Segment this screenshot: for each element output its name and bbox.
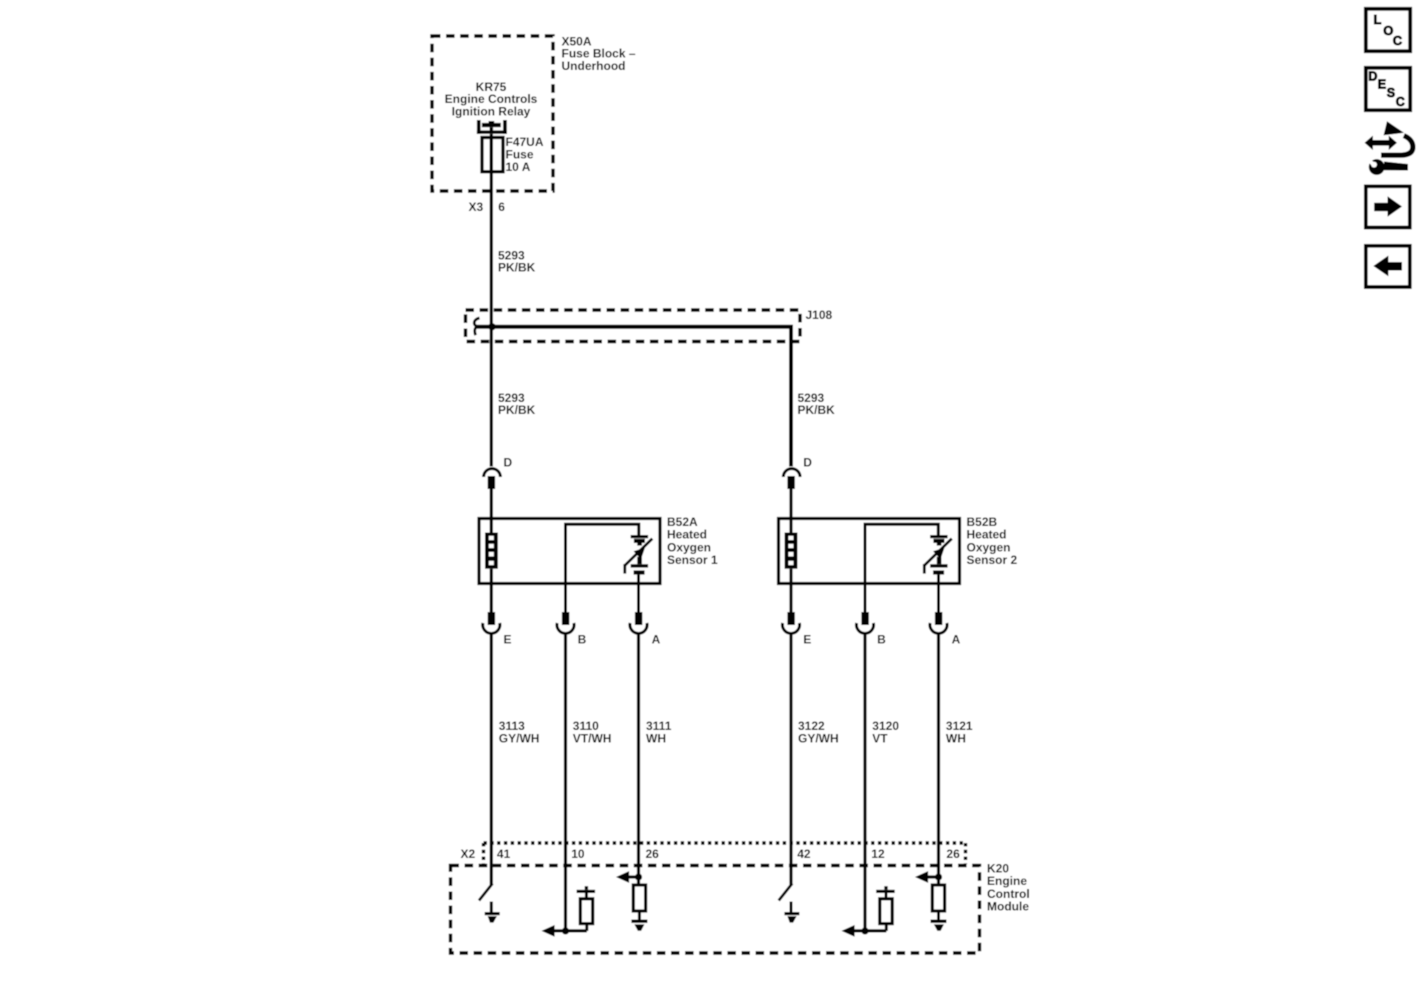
bent outline arrow — [1384, 121, 1404, 135]
svg-text:A: A — [652, 632, 661, 646]
svg-text:PK/BK: PK/BK — [798, 403, 836, 417]
svg-text:C: C — [1396, 95, 1405, 109]
svg-text:D: D — [504, 456, 513, 470]
svg-text:Sensor 1: Sensor 1 — [667, 553, 718, 567]
wire sensor2 B to ECM — [863, 634, 866, 931]
ECM resistor pin10 — [577, 886, 596, 931]
ECM switch pin42 — [779, 884, 793, 901]
ECM switch pin41 — [479, 884, 493, 901]
svg-text:L: L — [1374, 12, 1382, 27]
svg-text:J108: J108 — [806, 308, 833, 322]
junction dot on splice — [488, 323, 495, 330]
relay KR75 contact symbol — [477, 120, 507, 134]
ground pin42 — [784, 902, 799, 923]
wrench — [1369, 159, 1385, 175]
svg-text:B: B — [578, 632, 587, 646]
label circuit 3121 WH — [946, 719, 973, 745]
ECM arrow pin12 — [842, 925, 887, 937]
wire sensor1 B to ECM — [564, 634, 567, 931]
svg-text:WH: WH — [646, 731, 666, 745]
svg-text:PK/BK: PK/BK — [498, 261, 536, 275]
sensing cell B52B — [924, 535, 952, 583]
heater element B52A — [485, 519, 498, 584]
ground pin26 left — [631, 911, 647, 931]
wire sensor2 A to ECM — [937, 634, 940, 886]
svg-text:A: A — [952, 632, 961, 646]
fuse F47UA — [482, 138, 503, 172]
wire relay to fuse — [490, 134, 493, 138]
svg-text:12: 12 — [871, 847, 885, 861]
ECM resistor pin26 right — [932, 885, 944, 911]
label circuit 3120 VT — [872, 719, 899, 745]
svg-text:E: E — [803, 632, 811, 646]
connector A sensor1 — [630, 583, 647, 633]
connector A sensor2 — [930, 583, 947, 633]
connector E sensor2 — [782, 583, 799, 633]
wire sensor1 E to ECM — [490, 634, 493, 885]
svg-text:Ignition Relay: Ignition Relay — [452, 105, 531, 119]
label B52B Heated Oxygen Sensor 2 — [967, 515, 1018, 567]
ground pin26 right — [931, 911, 947, 931]
svg-text:GY/WH: GY/WH — [499, 731, 540, 745]
label circuit 5293 PK/BK top — [498, 248, 536, 274]
label circuit 3110 VT/WH — [573, 719, 612, 745]
ECM arrow pin26 right — [915, 871, 942, 883]
wire internal elbow B52B — [865, 524, 938, 583]
svg-text:41: 41 — [497, 847, 511, 861]
splice symbol — [474, 318, 479, 335]
heater element B52B — [785, 519, 798, 584]
svg-text:42: 42 — [797, 847, 811, 861]
connector B sensor2 — [856, 583, 873, 633]
ECM connector pin row dotted — [484, 843, 966, 864]
double arrow — [1365, 136, 1397, 150]
svg-text:E: E — [1378, 78, 1386, 92]
ground pin41 — [485, 902, 500, 923]
splice J108 dashed box — [466, 310, 801, 342]
button next arrow — [1366, 186, 1410, 227]
svg-text:WH: WH — [946, 731, 966, 745]
wire splice bus J108 — [477, 327, 792, 467]
ECM resistor pin26 left — [633, 885, 645, 911]
svg-text:10: 10 — [571, 847, 585, 861]
button DESC — [1366, 68, 1410, 110]
oxygen sensor B52B box — [779, 519, 960, 584]
ECM resistor pin12 — [876, 886, 895, 931]
svg-text:6: 6 — [498, 200, 505, 214]
label F47UA Fuse 10 A — [506, 135, 544, 174]
label circuit 5293 PK/BK right — [798, 391, 836, 417]
connector B sensor1 — [557, 583, 574, 633]
svg-text:10 A: 10 A — [506, 160, 531, 174]
wire fuse to splice J108 — [490, 172, 493, 327]
fuse block X50A dashed box — [432, 36, 553, 191]
label X50A Fuse Block - Underhood — [562, 34, 636, 72]
svg-text:VT: VT — [872, 731, 888, 745]
button LOC — [1366, 9, 1410, 51]
label KR75 Engine Controls Ignition Relay — [445, 80, 538, 119]
svg-text:C: C — [1393, 33, 1403, 48]
wire sensor1 A to ECM — [637, 634, 640, 886]
svg-text:X3: X3 — [469, 200, 484, 214]
svg-text:S: S — [1387, 86, 1395, 100]
svg-text:VT/WH: VT/WH — [573, 731, 612, 745]
oxygen sensor B52A box — [479, 519, 660, 584]
wire sensor2 E to ECM — [789, 634, 792, 885]
label circuit 5293 PK/BK left — [498, 391, 536, 417]
svg-text:D: D — [1368, 70, 1377, 84]
connector D sensor1 — [484, 469, 501, 520]
label K20 Engine Control Module — [987, 862, 1030, 914]
svg-text:Underhood: Underhood — [562, 59, 626, 73]
svg-text:Sensor 2: Sensor 2 — [967, 553, 1018, 567]
svg-text:X2: X2 — [461, 847, 476, 861]
svg-text:26: 26 — [646, 847, 660, 861]
svg-text:Module: Module — [987, 900, 1029, 914]
svg-text:D: D — [803, 456, 812, 470]
svg-text:B: B — [877, 632, 886, 646]
wire internal elbow B52A — [566, 524, 639, 583]
wire splice down to sensor1 D — [490, 327, 493, 467]
ECM arrow pin26 left — [616, 871, 642, 883]
button back arrow — [1366, 246, 1410, 287]
svg-text:GY/WH: GY/WH — [798, 731, 839, 745]
icon schematic navigation — [1365, 121, 1413, 175]
label circuit 3111 WH — [646, 719, 672, 745]
connector D sensor2 — [783, 469, 800, 520]
ECM K20 dashed box — [451, 866, 980, 954]
svg-text:E: E — [504, 632, 512, 646]
svg-text:PK/BK: PK/BK — [498, 403, 536, 417]
connector E sensor1 — [483, 583, 500, 633]
label circuit 3122 GY/WH — [798, 719, 839, 745]
svg-text:26: 26 — [946, 847, 960, 861]
label B52A Heated Oxygen Sensor 1 — [667, 515, 718, 567]
ECM arrow pin10 — [542, 925, 587, 937]
label circuit 3113 GY/WH — [499, 719, 540, 745]
sensing cell B52A — [625, 535, 653, 583]
